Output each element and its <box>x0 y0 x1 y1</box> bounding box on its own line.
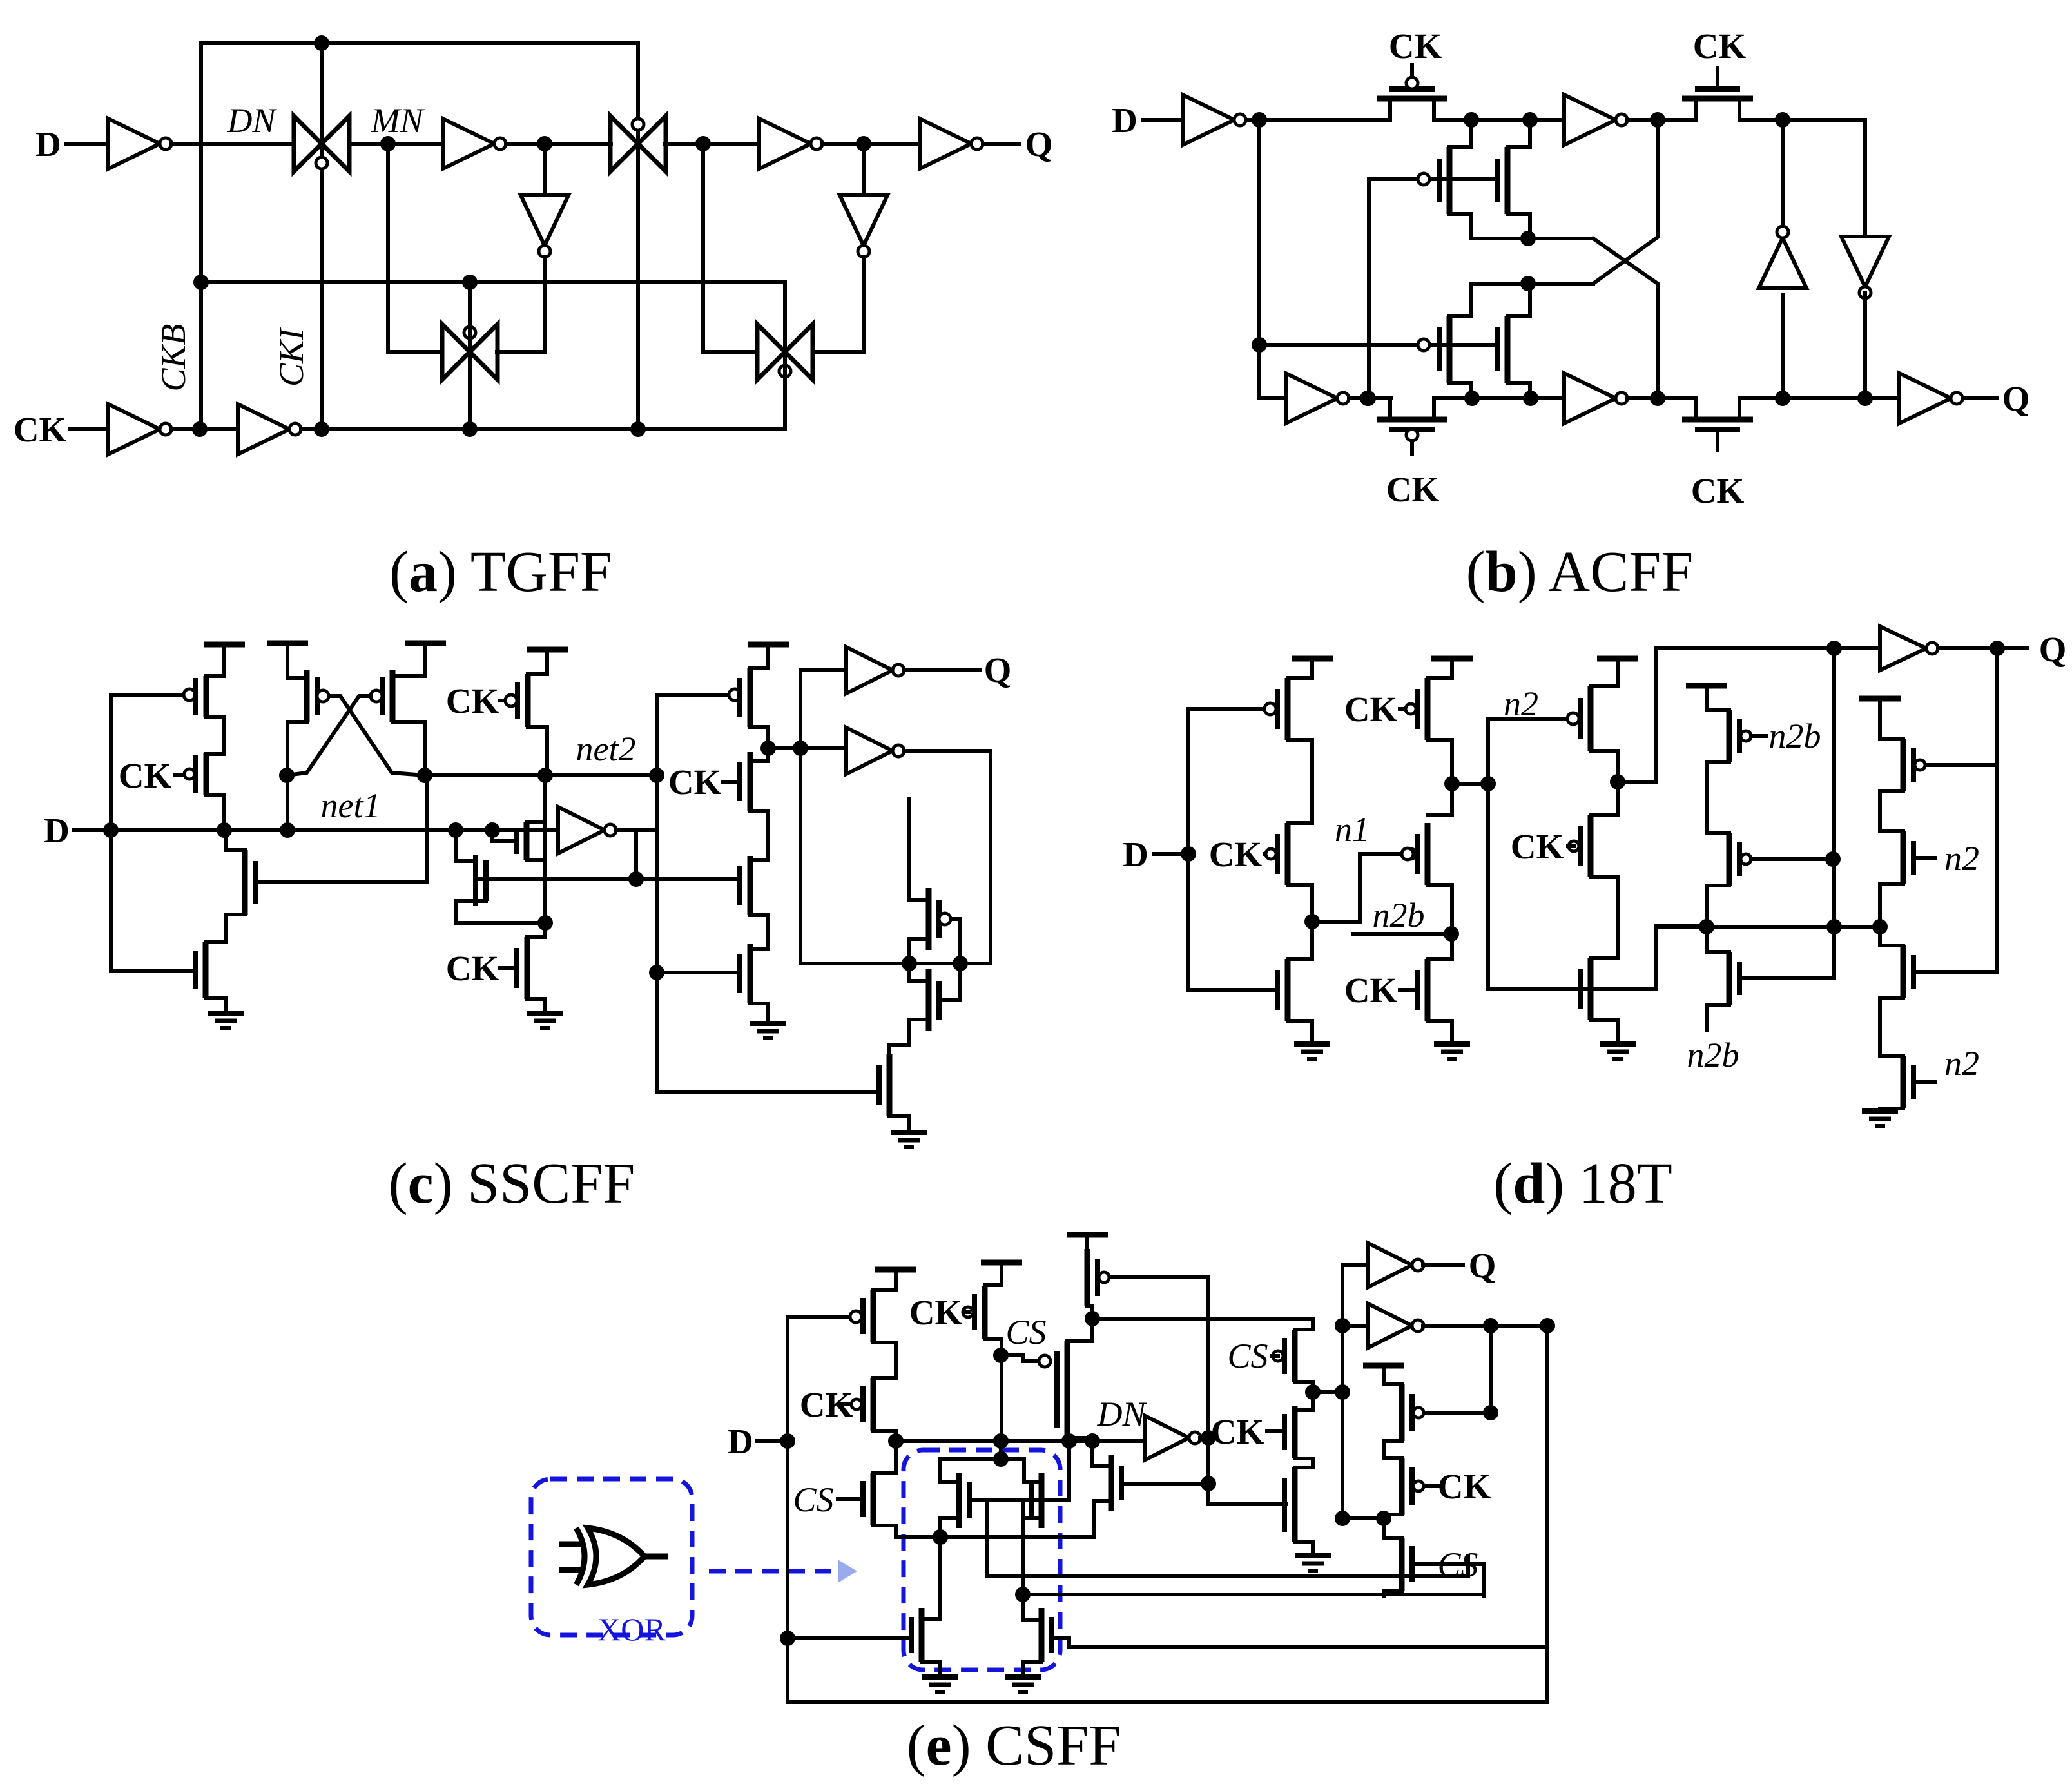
svg-text:net1: net1 <box>321 786 381 825</box>
svg-text:(a) TGFF: (a) TGFF <box>389 540 612 604</box>
svg-text:Q: Q <box>984 650 1012 690</box>
svg-text:CK: CK <box>668 762 722 802</box>
svg-text:n2b: n2b <box>1769 717 1821 755</box>
svg-text:Q: Q <box>2039 630 2067 669</box>
svg-text:n2b: n2b <box>1373 896 1425 934</box>
svg-text:CK: CK <box>1209 835 1263 874</box>
svg-text:n2: n2 <box>1944 1044 1979 1083</box>
svg-text:(d) 18T: (d) 18T <box>1493 1152 1672 1215</box>
svg-text:CKI: CKI <box>272 327 311 387</box>
svg-text:CK: CK <box>909 1293 963 1332</box>
svg-text:CKB: CKB <box>154 324 193 391</box>
svg-text:net2: net2 <box>576 730 636 768</box>
svg-text:CK: CK <box>446 949 499 988</box>
svg-text:Q: Q <box>1025 124 1053 164</box>
svg-text:CK: CK <box>14 410 67 449</box>
svg-text:CK: CK <box>1691 471 1745 510</box>
svg-text:n2: n2 <box>1944 839 1979 878</box>
svg-text:D: D <box>35 124 61 164</box>
svg-text:CK: CK <box>1438 1467 1491 1506</box>
svg-text:Q: Q <box>1469 1246 1496 1285</box>
svg-text:(c) SSCFF: (c) SSCFF <box>389 1152 635 1215</box>
svg-text:CK: CK <box>1344 690 1398 729</box>
svg-text:CK: CK <box>1511 827 1564 866</box>
svg-text:D: D <box>44 811 70 850</box>
svg-text:DN: DN <box>1096 1395 1147 1433</box>
svg-text:CK: CK <box>1693 26 1747 66</box>
svg-text:CS: CS <box>1005 1313 1046 1351</box>
svg-text:(e) CSFF: (e) CSFF <box>907 1714 1121 1777</box>
svg-text:XOR: XOR <box>597 1611 666 1647</box>
svg-text:CK: CK <box>1386 470 1440 509</box>
svg-text:n1: n1 <box>1335 810 1370 849</box>
svg-text:CK: CK <box>1344 971 1398 1010</box>
svg-text:CK: CK <box>446 681 499 721</box>
svg-text:D: D <box>1112 101 1138 140</box>
svg-text:Q: Q <box>2002 379 2030 418</box>
svg-text:CS: CS <box>793 1480 833 1519</box>
svg-text:CK: CK <box>1389 26 1442 66</box>
svg-text:n2b: n2b <box>1687 1036 1739 1074</box>
svg-text:(b) ACFF: (b) ACFF <box>1466 540 1694 604</box>
svg-text:CK: CK <box>119 756 172 795</box>
svg-text:D: D <box>1123 835 1148 874</box>
svg-text:DN: DN <box>226 101 277 140</box>
svg-text:CS: CS <box>1227 1337 1268 1375</box>
svg-text:D: D <box>728 1422 753 1461</box>
svg-text:CK: CK <box>1211 1412 1264 1451</box>
svg-text:MN: MN <box>371 101 425 140</box>
